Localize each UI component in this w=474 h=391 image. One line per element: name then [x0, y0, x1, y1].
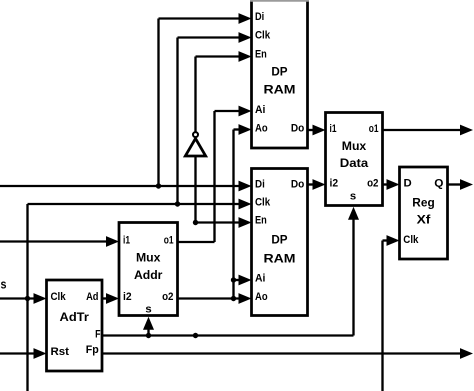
svg-text:Clk: Clk: [51, 291, 67, 303]
svg-text:i2: i2: [123, 291, 132, 303]
svg-text:En: En: [255, 215, 267, 227]
svg-text:s: s: [145, 303, 151, 315]
svg-text:D: D: [404, 177, 412, 189]
svg-text:Clk: Clk: [255, 30, 271, 42]
svg-text:Do: Do: [291, 179, 304, 191]
svg-text:RAM: RAM: [264, 251, 296, 265]
svg-text:RAM: RAM: [264, 83, 296, 97]
svg-text:Reg: Reg: [412, 196, 434, 210]
svg-text:DP: DP: [271, 232, 287, 246]
svg-text:i1: i1: [330, 123, 337, 135]
svg-text:Addr: Addr: [134, 268, 163, 282]
svg-text:Clk: Clk: [255, 197, 271, 209]
svg-text:Xf: Xf: [417, 213, 432, 227]
svg-text:Di: Di: [255, 11, 264, 23]
svg-text:s: s: [350, 191, 356, 203]
svg-text:En: En: [255, 48, 267, 60]
svg-text:i2: i2: [330, 177, 339, 189]
svg-text:AdTr: AdTr: [60, 310, 89, 324]
svg-text:Q: Q: [434, 177, 443, 189]
svg-text:DP: DP: [271, 64, 287, 78]
svg-text:Do: Do: [291, 122, 304, 134]
svg-text:o1: o1: [164, 235, 174, 247]
svg-text:Di: Di: [255, 179, 265, 191]
svg-text:o1: o1: [369, 123, 379, 135]
svg-text:Ao: Ao: [255, 122, 268, 134]
svg-text:F: F: [95, 328, 100, 340]
svg-text:Mux: Mux: [342, 139, 367, 153]
svg-text:i1: i1: [123, 235, 130, 247]
svg-text:Ad: Ad: [86, 291, 98, 303]
svg-text:s: s: [1, 278, 7, 292]
svg-text:Clk: Clk: [403, 234, 419, 246]
svg-text:o2: o2: [367, 177, 378, 189]
svg-text:Fp: Fp: [86, 344, 99, 356]
svg-text:Mux: Mux: [136, 251, 161, 265]
svg-text:Rst: Rst: [51, 346, 70, 358]
svg-text:Ai: Ai: [255, 273, 265, 285]
svg-text:Data: Data: [340, 156, 369, 170]
svg-text:Ao: Ao: [255, 291, 268, 303]
svg-text:o2: o2: [162, 291, 173, 303]
svg-text:Ai: Ai: [255, 104, 265, 116]
